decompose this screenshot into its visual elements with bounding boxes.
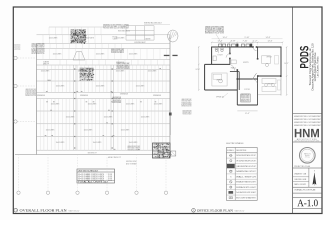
svg-text:AISLE TO REMAIN: AISLE TO REMAIN <box>126 162 137 165</box>
svg-text:NEW STRIPING TYP: NEW STRIPING TYP <box>88 153 97 155</box>
svg-text:8'-4": 8'-4" <box>245 113 250 115</box>
svg-text:ENTRY: ENTRY <box>243 62 249 64</box>
svg-text:PROVIDE NEW 10x10 STORAGE UNIT: PROVIDE NEW 10x10 STORAGE UNIT <box>103 26 129 29</box>
svg-text:SYMBOL: SYMBOL <box>227 150 234 152</box>
svg-text:OFFICE: OFFICE <box>266 57 272 59</box>
svg-text:10'x10' UNITS: 10'x10' UNITS <box>53 54 62 56</box>
svg-text:10'x10' UNITS: 10'x10' UNITS <box>85 38 94 40</box>
svg-text:10'x10' UNITS: 10'x10' UNITS <box>66 117 75 119</box>
svg-text:HNM ARCHITECTURE LLC 407 W MA: HNM ARCHITECTURE LLC 407 W MAIN STREET <box>294 118 321 121</box>
svg-text:10'x10' UNITS: 10'x10' UNITS <box>46 130 55 132</box>
svg-text:EXIT LIGHT W/ BATTERY: EXIT LIGHT W/ BATTERY <box>236 196 256 199</box>
svg-text:UNIT MIX SCHEDULE: UNIT MIX SCHEDULE <box>78 170 99 172</box>
svg-text:10'x10' UNITS: 10'x10' UNITS <box>93 142 102 144</box>
svg-text:10'x10' UNITS: 10'x10' UNITS <box>129 54 138 56</box>
svg-text:24'-8": 24'-8" <box>196 69 201 71</box>
svg-text:10'x10' UNITS: 10'x10' UNITS <box>126 104 135 106</box>
svg-text:OFFICE: OFFICE <box>216 80 222 82</box>
svg-text:A R C H I T E C T U R E: A R C H I T E C T U R E <box>297 138 318 141</box>
svg-text:HNM ARCHITECTURE LLC 407 W MA: HNM ARCHITECTURE LLC 407 W MAIN STREET <box>294 115 321 118</box>
svg-text:14'-2": 14'-2" <box>284 63 289 65</box>
svg-text:16'-0": 16'-0" <box>223 37 228 39</box>
svg-text:10'x10' UNITS: 10'x10' UNITS <box>141 117 150 119</box>
svg-text:3'-8": 3'-8" <box>231 41 237 43</box>
svg-text:OVERALL FLOOR PLAN: OVERALL FLOOR PLAN <box>294 189 316 192</box>
svg-text:QUAD RECEPTACLE OUTLET: QUAD RECEPTACLE OUTLET <box>236 165 256 168</box>
svg-text:DUPLEX RECEPTACLE OUTLET: DUPLEX RECEPTACLE OUTLET <box>236 154 256 157</box>
svg-text:ASPHALT PAVING TYP: ASPHALT PAVING TYP <box>108 156 122 159</box>
svg-text:EXISTING MEZZ: EXISTING MEZZ <box>135 42 146 44</box>
svg-text:10'x10' UNITS: 10'x10' UNITS <box>121 130 130 132</box>
svg-text:10'x10' UNITS: 10'x10' UNITS <box>51 104 60 106</box>
svg-text:14'-8": 14'-8" <box>266 37 271 39</box>
svg-text:124: 124 <box>108 176 112 178</box>
svg-text:10'x10' UNITS: 10'x10' UNITS <box>116 71 125 73</box>
svg-text:10'x10' UNITS: 10'x10' UNITS <box>88 104 97 106</box>
svg-text:10'x10' UNITS: 10'x10' UNITS <box>78 71 87 73</box>
svg-text:Las Cruces, Florida: Las Cruces, Florida <box>316 56 319 78</box>
svg-text:HNM ARCHITECTURE LLC 407 W MA: HNM ARCHITECTURE LLC 407 W MAIN STREET <box>294 124 321 127</box>
svg-text:10'x10' UNITS: 10'x10' UNITS <box>49 38 58 40</box>
svg-text:10'x10' UNITS: 10'x10' UNITS <box>96 86 105 88</box>
svg-text:TOILET: TOILET <box>217 55 223 57</box>
svg-text:OPEN OFF: OPEN OFF <box>267 83 273 85</box>
svg-text:EXISTING BLDG: EXISTING BLDG <box>118 31 131 33</box>
svg-text:GFI DUPLEX RECEP OUTLET: GFI DUPLEX RECEP OUTLET <box>236 161 256 163</box>
svg-text:CHECKED: HNM: CHECKED: HNM <box>294 179 306 181</box>
svg-text:SURFACE MTD LIGHT: SURFACE MTD LIGHT <box>236 186 256 189</box>
svg-text:10'x10' UNITS: 10'x10' UNITS <box>96 54 105 56</box>
svg-text:SCALE: 1/16"=1'-0": SCALE: 1/16"=1'-0" <box>69 209 80 212</box>
svg-text:10'x10' UNITS: 10'x10' UNITS <box>56 86 65 88</box>
svg-text:DATE: 03/16/21: DATE: 03/16/21 <box>294 183 306 186</box>
svg-text:N: N <box>314 171 315 173</box>
svg-text:OFFICE 101: OFFICE 101 <box>216 97 224 99</box>
svg-text:DATA/PHONE OUTLET: DATA/PHONE OUTLET <box>236 170 256 173</box>
svg-text:DESCRIPTION: DESCRIPTION <box>236 150 246 152</box>
svg-text:10'x10' UNITS: 10'x10' UNITS <box>116 38 125 40</box>
svg-text:10'x10' UNITS: 10'x10' UNITS <box>129 142 138 144</box>
svg-text:2x4 LAY-IN FLUOR LIGHT: 2x4 LAY-IN FLUOR LIGHT <box>236 191 256 194</box>
svg-text:12'-6": 12'-6" <box>268 41 273 43</box>
svg-text:GENERAL NOTES REFER TO SHEET: GENERAL NOTES REFER TO SHEET <box>71 41 87 44</box>
svg-text:HNM ARCHITECTURE LLC 407 W MA: HNM ARCHITECTURE LLC 407 W MAIN STREET <box>294 121 321 124</box>
svg-text:MESH PANELS W/ ROLLUP DOORS: MESH PANELS W/ ROLLUP DOORS <box>205 32 225 35</box>
svg-text:EXHAUST FAN W/ LIGHT: EXHAUST FAN W/ LIGHT <box>236 181 256 184</box>
svg-text:10'x10' UNITS: 10'x10' UNITS <box>56 142 65 144</box>
svg-text:G: G <box>230 160 231 162</box>
svg-text:PROJECT NO: 21-044: PROJECT NO: 21-044 <box>294 166 310 168</box>
svg-text:EXISTING BUILDING 200'-0": EXISTING BUILDING 200'-0" <box>144 22 162 24</box>
svg-text:10'x10' UNITS: 10'x10' UNITS <box>84 130 93 132</box>
svg-text:ALL PARTITIONS TO BE 9GA WIRE: ALL PARTITIONS TO BE 9GA WIRE <box>113 101 122 104</box>
svg-text:10'x10' UNITS: 10'x10' UNITS <box>148 71 157 73</box>
svg-text:10'x10' UNITS: 10'x10' UNITS <box>104 117 113 119</box>
svg-text:2'-2": 2'-2" <box>253 41 259 43</box>
svg-text:PROVIDE NEW 10x10 STORAGE UNIT: PROVIDE NEW 10x10 STORAGE UNIT <box>128 148 141 151</box>
svg-text:SCALE: 1/4"=1'-0": SCALE: 1/4"=1'-0" <box>235 209 245 212</box>
svg-text:COORDINATE W/ OWNER SPEC: COORDINATE W/ OWNER SPEC <box>80 78 94 81</box>
svg-text:TOTAL ALL UNITS 412: TOTAL ALL UNITS 412 <box>78 181 108 184</box>
svg-text:10'x10' UNITS: 10'x10' UNITS <box>136 86 145 88</box>
svg-text:DRAWN BY: JDM: DRAWN BY: JDM <box>294 173 306 176</box>
svg-text:10'x10' UNITS: 10'x10' UNITS <box>41 71 50 73</box>
svg-text:9'-10": 9'-10" <box>245 37 250 39</box>
svg-text:124: 124 <box>108 174 112 176</box>
svg-text:7'-10": 7'-10" <box>243 41 248 43</box>
svg-text:124: 124 <box>108 178 112 180</box>
svg-text:10'x10' UNITS: 10'x10' UNITS <box>154 104 163 106</box>
svg-text:WALL SWITCH: WALL SWITCH <box>236 175 257 178</box>
svg-text:ELECTRIC SYMBOLS: ELECTRIC SYMBOLS <box>226 143 244 145</box>
